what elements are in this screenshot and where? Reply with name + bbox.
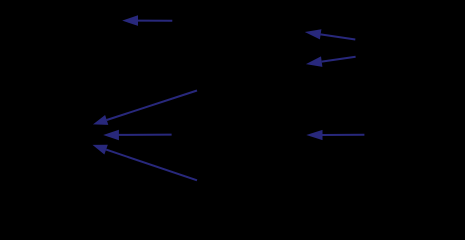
arrow A2 (top-right upper, points left-up) — [305, 29, 356, 39]
arrow A4 (middle, diagonal from upper right to lower left) — [93, 91, 197, 125]
arrow A3 (top-right lower, points left-down) — [306, 56, 356, 67]
arrow A6 (middle, diagonal from lower right to upper left) — [93, 145, 198, 181]
arrow A5 (middle-left, horizontal, points left) — [103, 130, 171, 141]
arrow A7 (middle-right, horizontal, points left) — [306, 130, 364, 140]
arrow A1 (top-left, horizontal, points left) — [122, 15, 172, 26]
